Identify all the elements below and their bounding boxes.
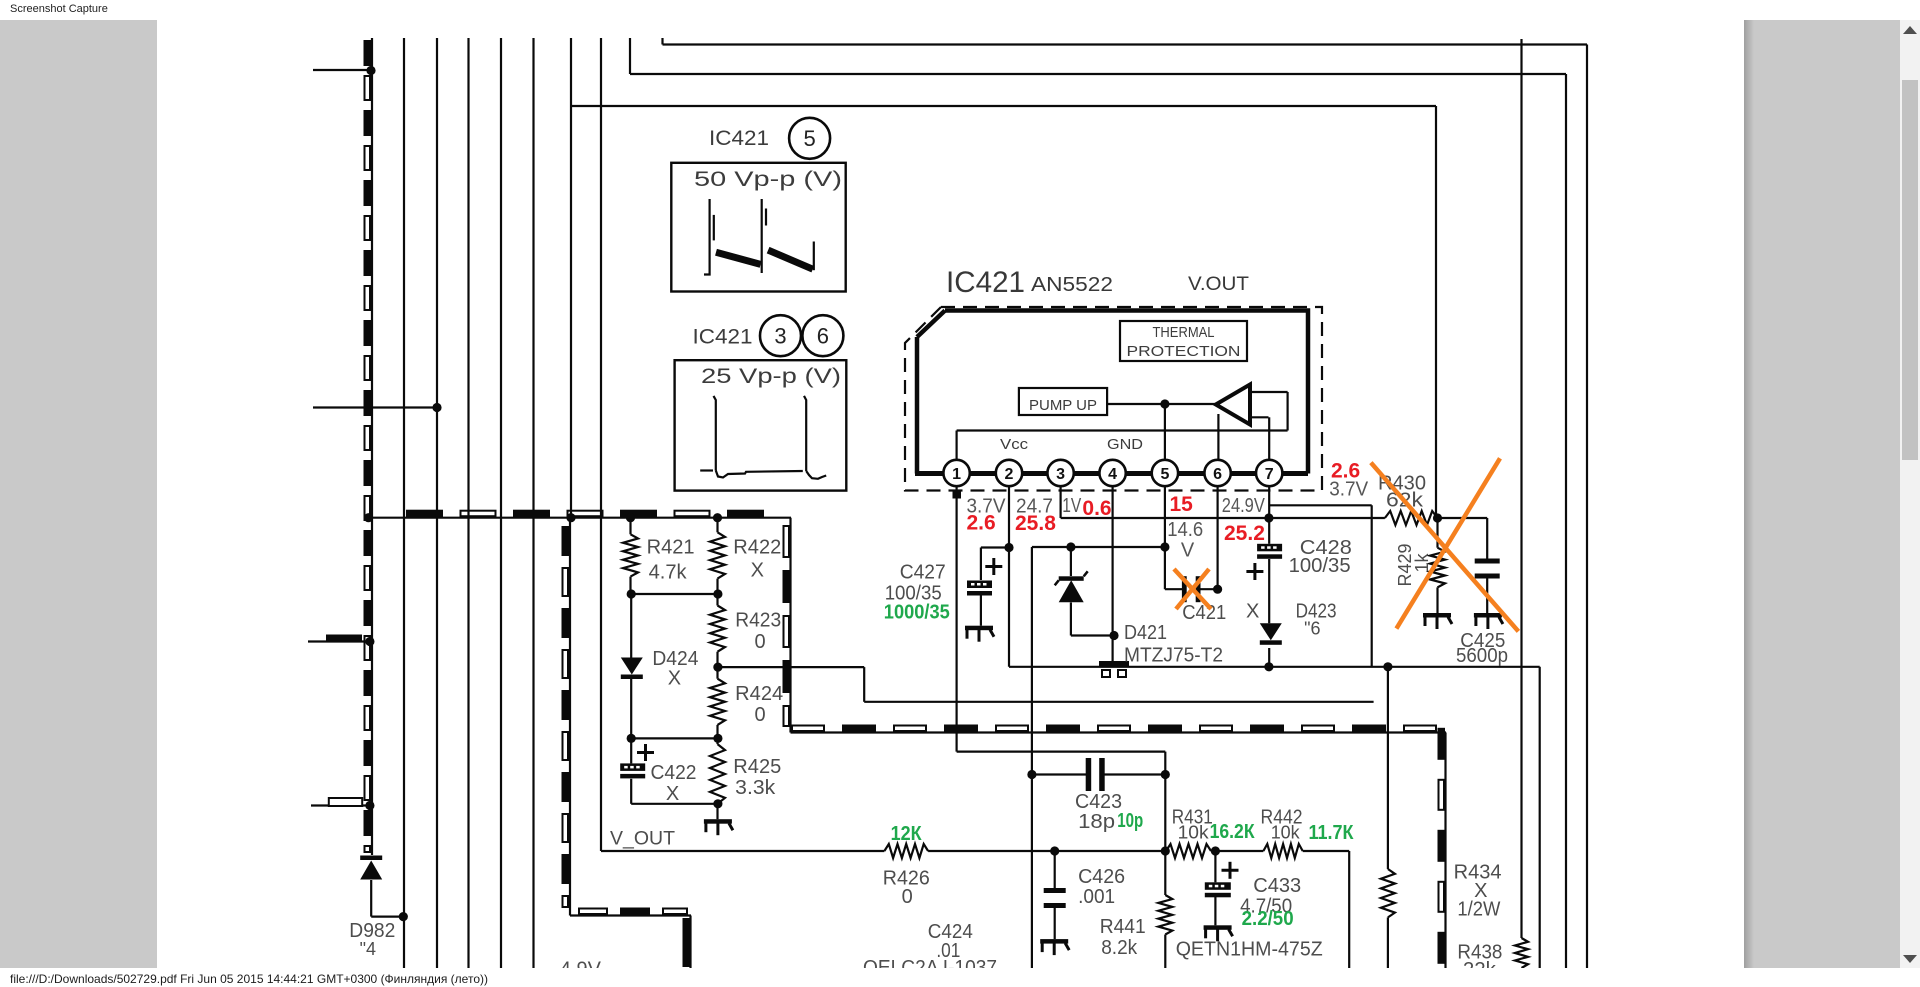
svg-text:6: 6 — [817, 324, 829, 349]
svg-text:C422: C422 — [651, 762, 697, 784]
svg-text:4: 4 — [1108, 466, 1117, 483]
svg-text:IC421: IC421 — [946, 266, 1025, 299]
svg-text:1: 1 — [952, 466, 961, 483]
svg-text:V_OUT: V_OUT — [610, 828, 675, 849]
svg-text:0: 0 — [755, 704, 766, 726]
svg-text:PUMP UP: PUMP UP — [1029, 397, 1097, 414]
svg-text:3: 3 — [774, 324, 786, 349]
svg-text:C421: C421 — [1182, 602, 1226, 624]
svg-text:X: X — [751, 560, 764, 582]
svg-text:C423: C423 — [1075, 791, 1122, 813]
svg-text:QETN1HM-475Z: QETN1HM-475Z — [1176, 939, 1323, 961]
svg-text:2.6: 2.6 — [1331, 460, 1360, 483]
svg-text:16.2К: 16.2К — [1210, 821, 1256, 843]
svg-text:100/35: 100/35 — [1289, 555, 1351, 577]
svg-text:4.9V: 4.9V — [560, 959, 602, 968]
svg-text:V: V — [1181, 540, 1195, 562]
svg-text:0: 0 — [755, 631, 766, 653]
svg-text:12К: 12К — [891, 823, 923, 845]
svg-text:10p: 10p — [1117, 810, 1143, 832]
svg-text:IC421: IC421 — [693, 326, 753, 349]
svg-text:5600p: 5600p — [1456, 645, 1508, 667]
svg-text:MTZJ75-T2: MTZJ75-T2 — [1124, 645, 1223, 667]
svg-text:14.6: 14.6 — [1167, 519, 1203, 541]
svg-text:3: 3 — [1056, 466, 1065, 483]
svg-text:6: 6 — [1213, 466, 1222, 483]
svg-text:15: 15 — [1170, 493, 1194, 516]
svg-text:R441: R441 — [1100, 916, 1146, 938]
svg-text:1k: 1k — [1412, 552, 1432, 572]
svg-text:GND: GND — [1107, 436, 1143, 453]
svg-text:5: 5 — [803, 126, 815, 151]
svg-text:7: 7 — [1265, 466, 1274, 483]
svg-text:10k: 10k — [1271, 823, 1301, 843]
svg-text:25 Vp-p (V): 25 Vp-p (V) — [701, 365, 841, 388]
svg-text:1000/35: 1000/35 — [884, 602, 950, 624]
svg-text:X: X — [668, 668, 681, 690]
svg-text:V.OUT: V.OUT — [1188, 274, 1249, 295]
svg-text:"4: "4 — [360, 939, 376, 959]
svg-text:Vcc: Vcc — [1000, 436, 1029, 453]
svg-text:24.9V: 24.9V — [1222, 495, 1266, 517]
svg-text:5: 5 — [1160, 466, 1169, 483]
svg-text:2: 2 — [1005, 466, 1014, 483]
svg-text:18p: 18p — [1078, 811, 1115, 833]
svg-text:PROTECTION: PROTECTION — [1127, 343, 1241, 360]
svg-text:22k: 22k — [1463, 959, 1497, 968]
svg-text:11.7К: 11.7К — [1309, 822, 1355, 844]
svg-text:C426: C426 — [1078, 866, 1125, 888]
svg-text:"6: "6 — [1304, 619, 1320, 639]
svg-text:2.6: 2.6 — [967, 512, 996, 535]
svg-text:0.6: 0.6 — [1082, 497, 1111, 520]
svg-text:R425: R425 — [733, 756, 781, 778]
svg-text:0: 0 — [902, 886, 913, 908]
svg-text:25.2: 25.2 — [1224, 522, 1265, 545]
svg-text:R422: R422 — [733, 537, 781, 559]
svg-text:QELC2A I-1037: QELC2A I-1037 — [863, 957, 997, 968]
svg-text:.001: .001 — [1078, 886, 1115, 908]
svg-text:C427: C427 — [900, 561, 946, 583]
svg-text:R421: R421 — [647, 537, 695, 559]
svg-text:D421: D421 — [1124, 622, 1167, 644]
svg-text:4.7k: 4.7k — [649, 562, 688, 584]
svg-text:THERMAL: THERMAL — [1153, 324, 1215, 341]
svg-text:1/2W: 1/2W — [1457, 899, 1500, 921]
svg-text:10k: 10k — [1178, 823, 1210, 843]
svg-text:50 Vp-p (V): 50 Vp-p (V) — [694, 168, 842, 191]
svg-text:X: X — [1246, 601, 1259, 623]
svg-text:1V: 1V — [1062, 495, 1082, 517]
svg-text:2.2/50: 2.2/50 — [1242, 908, 1294, 930]
svg-text:8.2k: 8.2k — [1101, 937, 1138, 959]
svg-text:R424: R424 — [735, 683, 783, 705]
svg-text:AN5522: AN5522 — [1031, 274, 1113, 296]
svg-text:C433: C433 — [1253, 875, 1301, 897]
svg-text:25.8: 25.8 — [1015, 512, 1056, 535]
svg-text:R423: R423 — [735, 610, 781, 632]
svg-text:X: X — [666, 783, 679, 805]
svg-text:IC421: IC421 — [709, 127, 769, 150]
svg-text:3.3k: 3.3k — [735, 777, 776, 799]
